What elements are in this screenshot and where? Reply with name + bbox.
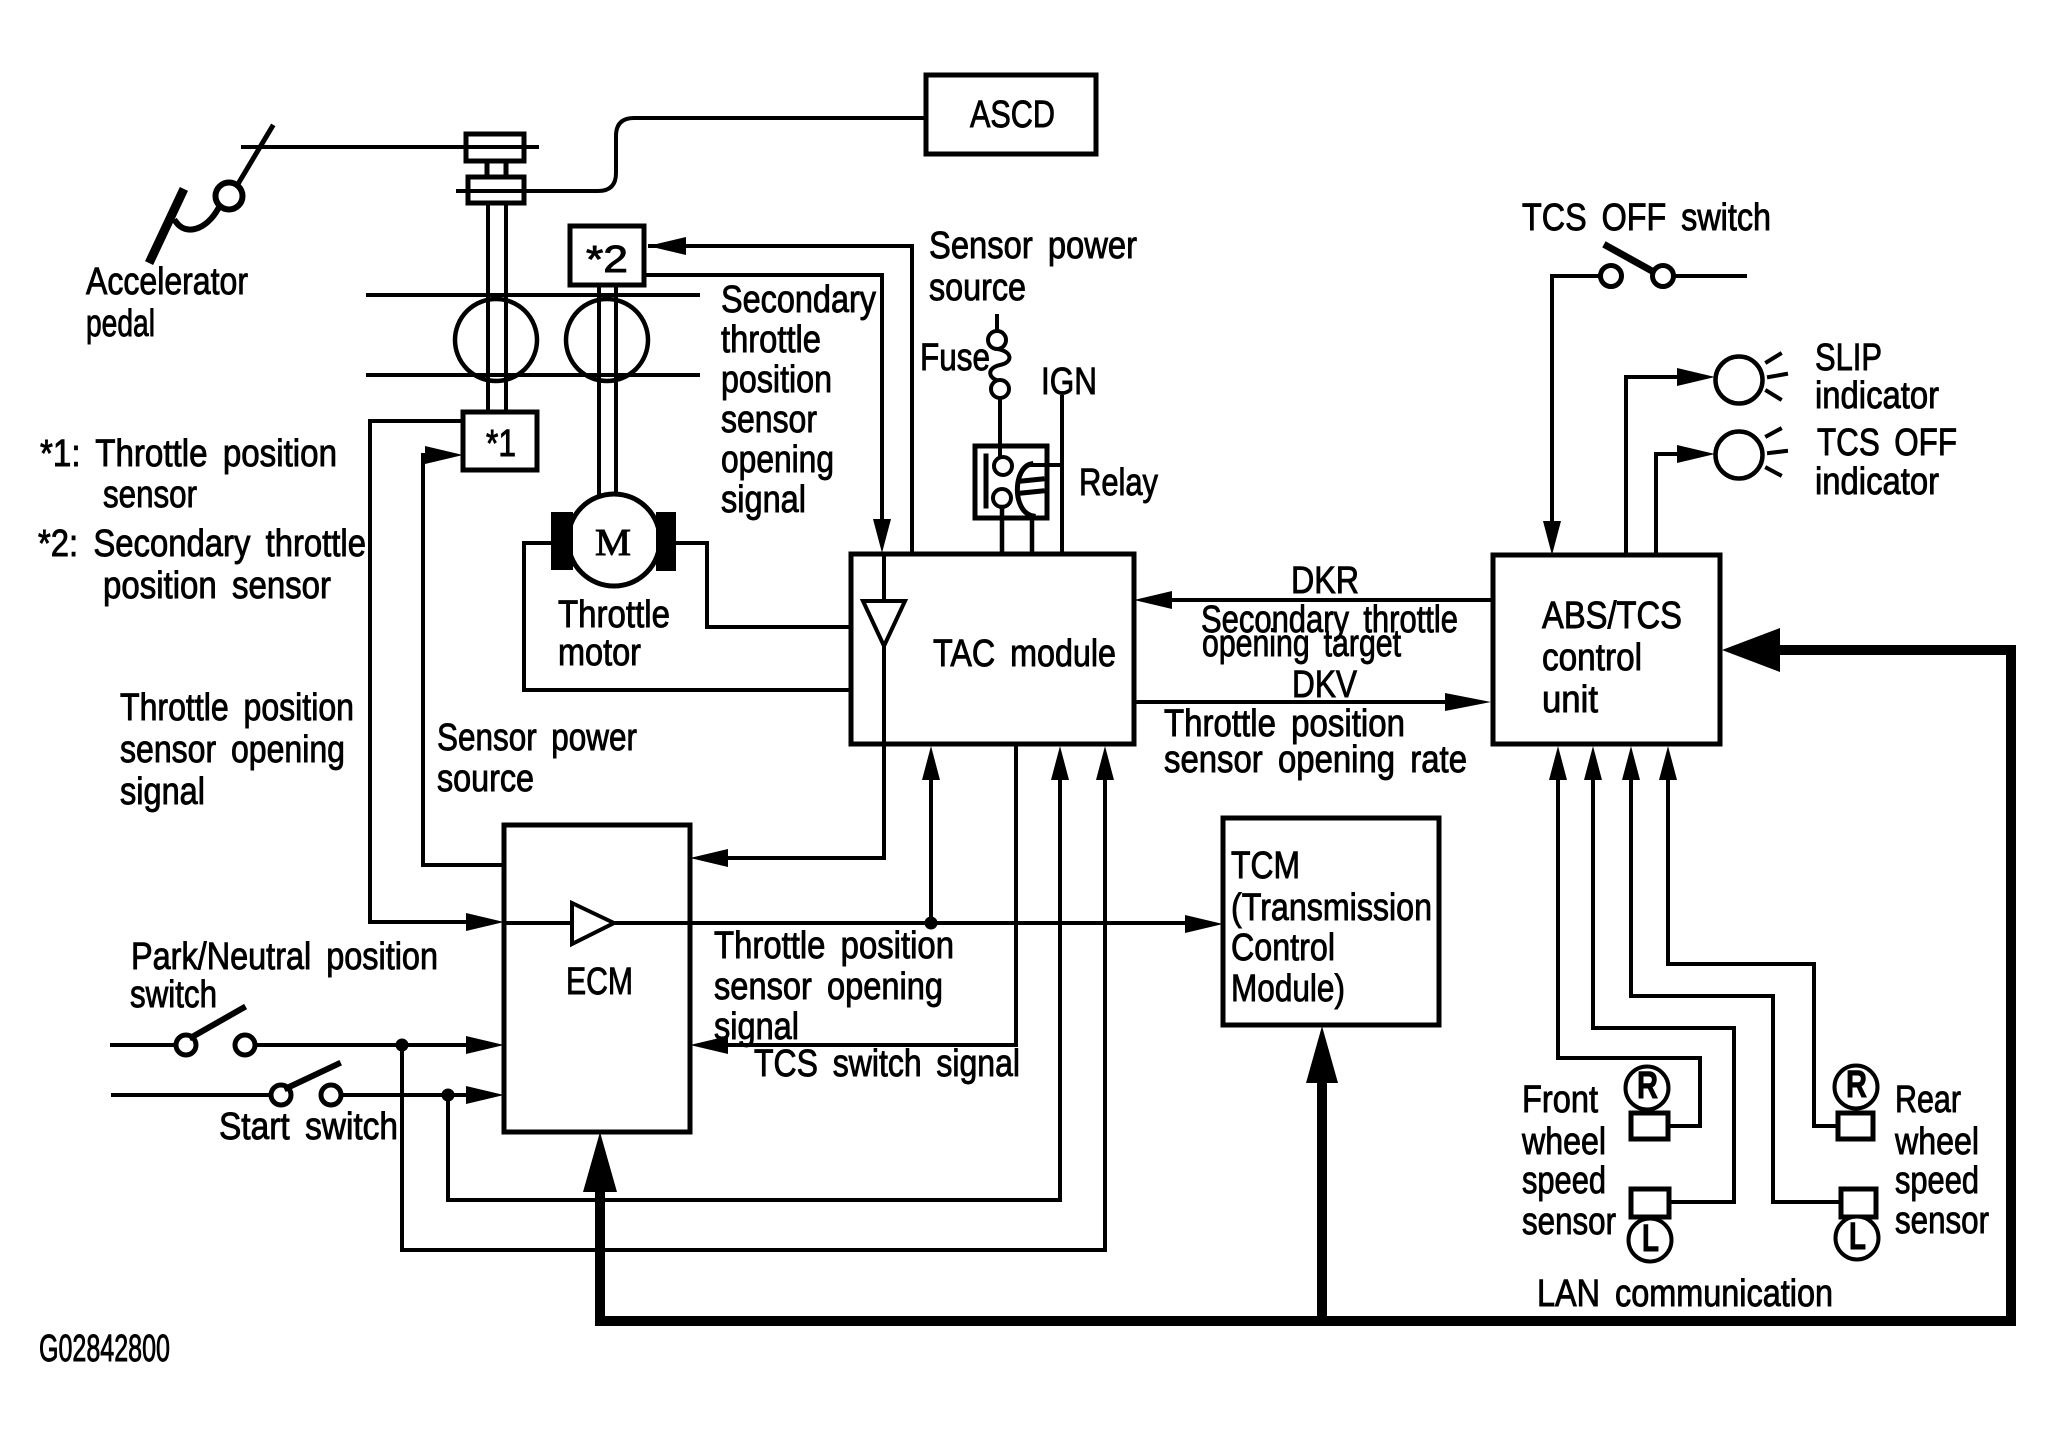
svg-text:sensor: sensor <box>1522 1201 1616 1243</box>
svg-text:opening: opening <box>721 439 834 481</box>
wire B P/N branch to TAC <box>402 780 1105 1250</box>
front L wheel circle <box>1629 1219 1672 1262</box>
svg-text:position sensor: position sensor <box>103 565 331 607</box>
svg-text:sensor opening rate: sensor opening rate <box>1164 739 1467 781</box>
svg-text:Accelerator: Accelerator <box>86 261 248 303</box>
junction dot start <box>442 1089 455 1102</box>
svg-text:*1: *1 <box>486 423 516 465</box>
wire left stub start <box>113 1093 271 1097</box>
wire relay out 1 to TAC <box>1000 507 1005 553</box>
svg-text:switch: switch <box>130 974 217 1016</box>
thick wire loop LAN <box>600 650 2011 1321</box>
ABS/TCS control unit box <box>1493 555 1720 744</box>
svg-text:Fuse: Fuse <box>920 337 990 379</box>
wire rear right wheel sensor to ABS <box>1668 780 1838 1126</box>
wire ABS to TCS OFF indicator <box>1656 454 1680 555</box>
throttle valve 1 <box>455 299 537 381</box>
P/N switch lever <box>192 1008 243 1037</box>
wire sensor power ECM to *1 <box>423 455 504 865</box>
wire start to ECM <box>341 1093 468 1097</box>
shaft 2 double line <box>597 285 601 497</box>
front R wheel circle <box>1626 1067 1669 1110</box>
svg-text:source: source <box>929 267 1026 309</box>
relay box <box>975 446 1047 518</box>
TCM box <box>1223 818 1439 1025</box>
ECM amplifier triangle <box>572 903 614 944</box>
wire ABS to SLIP indicator <box>1626 377 1680 555</box>
svg-text:wheel: wheel <box>1521 1121 1606 1163</box>
svg-text:control: control <box>1542 637 1642 679</box>
svg-text:Relay: Relay <box>1079 462 1158 504</box>
motor brush left <box>551 512 573 570</box>
svg-text:*2: Secondary throttle: *2: Secondary throttle <box>38 523 366 565</box>
svg-text:R: R <box>1637 1065 1658 1107</box>
svg-text:TCS OFF switch: TCS OFF switch <box>1522 197 1771 239</box>
wire fuse to relay <box>998 398 1002 457</box>
svg-text:DKV: DKV <box>1292 664 1358 706</box>
wire front right wheel sensor to ABS <box>1558 780 1700 1126</box>
svg-text:sensor opening: sensor opening <box>714 966 943 1008</box>
svg-text:SLIP: SLIP <box>1815 337 1882 379</box>
wire sensor power source to *2 <box>650 244 912 248</box>
svg-text:Throttle position: Throttle position <box>120 687 354 729</box>
svg-text:signal: signal <box>714 1006 799 1048</box>
svg-text:IGN: IGN <box>1041 361 1097 403</box>
front L sensor box <box>1631 1189 1669 1217</box>
wire motor right to TAC <box>676 543 851 627</box>
svg-text:speed: speed <box>1895 1160 1979 1202</box>
svg-text:ECM: ECM <box>566 961 633 1003</box>
ASCD box <box>926 75 1096 154</box>
svg-text:speed: speed <box>1522 1160 1606 1202</box>
start switch circle left <box>271 1085 291 1105</box>
relay contact circle bottom <box>993 489 1011 507</box>
svg-text:LAN communication: LAN communication <box>1537 1273 1833 1315</box>
svg-text:DKR: DKR <box>1291 560 1359 602</box>
svg-text:wheel: wheel <box>1894 1121 1979 1163</box>
sensor box *1 <box>463 412 537 470</box>
svg-text:TCS OFF: TCS OFF <box>1817 422 1957 464</box>
start switch lever <box>287 1064 338 1088</box>
svg-text:L: L <box>1642 1218 1659 1260</box>
svg-text:TCS switch signal: TCS switch signal <box>754 1043 1020 1085</box>
svg-text:ASCD: ASCD <box>970 94 1055 136</box>
svg-text:Front: Front <box>1522 1079 1598 1121</box>
rear R sensor box <box>1838 1113 1873 1139</box>
TAC input line <box>882 556 886 601</box>
wire front left wheel sensor to ABS <box>1593 780 1734 1202</box>
svg-text:G02842800: G02842800 <box>39 1328 170 1370</box>
svg-text:source: source <box>437 758 534 800</box>
wire P/N to ECM <box>255 1043 468 1047</box>
wire pedal to linkage <box>243 145 537 149</box>
shaft 1 double line <box>486 203 490 412</box>
wire ECM to TCM throttle position signal <box>614 921 1188 925</box>
wire A start branch to TAC <box>448 780 1060 1200</box>
svg-text:Module): Module) <box>1231 968 1345 1010</box>
wire TAC to ECM TCS switch signal <box>726 746 1016 1045</box>
svg-text:sensor opening: sensor opening <box>120 729 345 771</box>
wire sensor power source to fuse <box>995 316 999 331</box>
svg-text:R: R <box>1846 1064 1867 1106</box>
svg-text:Park/Neutral position: Park/Neutral position <box>131 936 438 978</box>
svg-text:signal: signal <box>120 771 205 813</box>
ECM internal signal line <box>504 921 572 925</box>
SLIP indicator lamp <box>1716 357 1763 404</box>
svg-text:M: M <box>595 522 631 564</box>
svg-text:TCM: TCM <box>1231 845 1300 887</box>
svg-text:Rear: Rear <box>1895 1079 1961 1121</box>
svg-text:Control: Control <box>1231 927 1335 969</box>
svg-text:throttle: throttle <box>721 319 821 361</box>
wire TCS OFF switch right stub <box>1675 274 1745 278</box>
rear R wheel circle <box>1835 1066 1878 1109</box>
svg-text:TAC module: TAC module <box>933 633 1116 675</box>
wire relay coil to IGN <box>1029 463 1062 467</box>
junction dot ECM-TCM wire <box>925 917 938 930</box>
relay contact circle top <box>994 457 1012 475</box>
wire left stub P/N <box>112 1043 176 1047</box>
svg-text:indicator: indicator <box>1815 461 1939 503</box>
svg-text:pedal: pedal <box>86 303 155 345</box>
wire TCS OFF switch left to ABS <box>1552 276 1599 522</box>
relay contact bar <box>984 456 989 506</box>
wire TAC to ECM secondary signal <box>726 646 884 858</box>
fuse terminal circle bottom <box>991 380 1009 398</box>
svg-text:Sensor power: Sensor power <box>929 225 1137 267</box>
svg-text:sensor: sensor <box>1895 1200 1989 1242</box>
svg-text:Throttle: Throttle <box>558 594 670 636</box>
wire ASCD to linkage <box>458 118 926 191</box>
junction dot P/N <box>396 1039 409 1052</box>
motor brush right <box>656 512 676 571</box>
thick arrow into ABS <box>1722 628 1780 672</box>
svg-text:*1: Throttle position: *1: Throttle position <box>40 433 337 475</box>
P/N switch circle right <box>235 1035 255 1055</box>
svg-text:Throttle position: Throttle position <box>714 925 954 967</box>
throttle bore line top <box>368 293 698 297</box>
svg-text:signal: signal <box>721 479 806 521</box>
wire motor left to TAC <box>524 543 851 690</box>
thick arrow into TCM <box>1306 1026 1338 1083</box>
wire *2 secondary signal to TAC <box>646 273 882 277</box>
svg-text:ABS/TCS: ABS/TCS <box>1542 595 1682 637</box>
rear L wheel circle <box>1836 1217 1879 1260</box>
svg-text:(Transmission: (Transmission <box>1231 887 1432 929</box>
svg-text:*2: *2 <box>586 239 628 281</box>
pedal pivot circle <box>216 183 243 210</box>
start switch circle right <box>321 1085 341 1105</box>
svg-text:Sensor power: Sensor power <box>437 717 637 759</box>
TCS OFF switch circle left <box>1601 266 1622 287</box>
wire junction to TAC <box>929 778 933 923</box>
P/N switch circle left <box>176 1035 196 1055</box>
pedal arm curve <box>176 209 218 230</box>
TCS OFF indicator lamp <box>1716 432 1763 479</box>
svg-text:opening target: opening target <box>1202 623 1401 665</box>
throttle motor circle <box>568 494 660 586</box>
thick arrow into ECM <box>583 1132 617 1192</box>
wire DKR ABS to TAC <box>1170 598 1493 602</box>
relay coil <box>1017 464 1033 516</box>
throttle linkage upper plate <box>466 134 524 161</box>
throttle linkage lower plate <box>468 177 524 203</box>
TAC amplifier triangle <box>863 601 905 646</box>
svg-text:L: L <box>1849 1216 1866 1258</box>
rear L sensor box <box>1841 1189 1876 1217</box>
svg-text:sensor: sensor <box>721 399 817 441</box>
thick branch to TCM <box>1317 1080 1327 1321</box>
svg-text:unit: unit <box>1542 679 1598 721</box>
ECM box <box>504 825 690 1132</box>
throttle valve 2 <box>566 299 648 381</box>
svg-text:motor: motor <box>558 632 641 674</box>
svg-text:position: position <box>721 359 832 401</box>
front R sensor box <box>1631 1113 1668 1139</box>
wire *1 signal to ECM <box>370 421 468 922</box>
sensor box *2 <box>570 226 644 285</box>
accelerator pedal pad <box>151 193 182 259</box>
wire relay out 2 to TAC <box>1030 516 1035 553</box>
fuse terminal circle top <box>988 331 1006 349</box>
svg-text:Start switch: Start switch <box>219 1106 398 1148</box>
TCS OFF switch circle right <box>1653 266 1674 287</box>
pedal rod <box>238 127 272 184</box>
linkage connector stubs <box>485 161 490 177</box>
fuse element squiggle <box>990 349 1009 381</box>
svg-text:sensor: sensor <box>103 474 197 516</box>
wire rear left wheel sensor to ABS <box>1631 780 1841 1202</box>
svg-text:Secondary: Secondary <box>721 279 876 321</box>
throttle bore line bottom <box>368 373 698 377</box>
svg-text:indicator: indicator <box>1815 375 1939 417</box>
TAC module box <box>851 554 1134 744</box>
wire IGN to TAC <box>1060 397 1064 553</box>
TCS OFF switch lever <box>1607 246 1652 271</box>
wire DKV TAC to ABS <box>1134 700 1450 704</box>
